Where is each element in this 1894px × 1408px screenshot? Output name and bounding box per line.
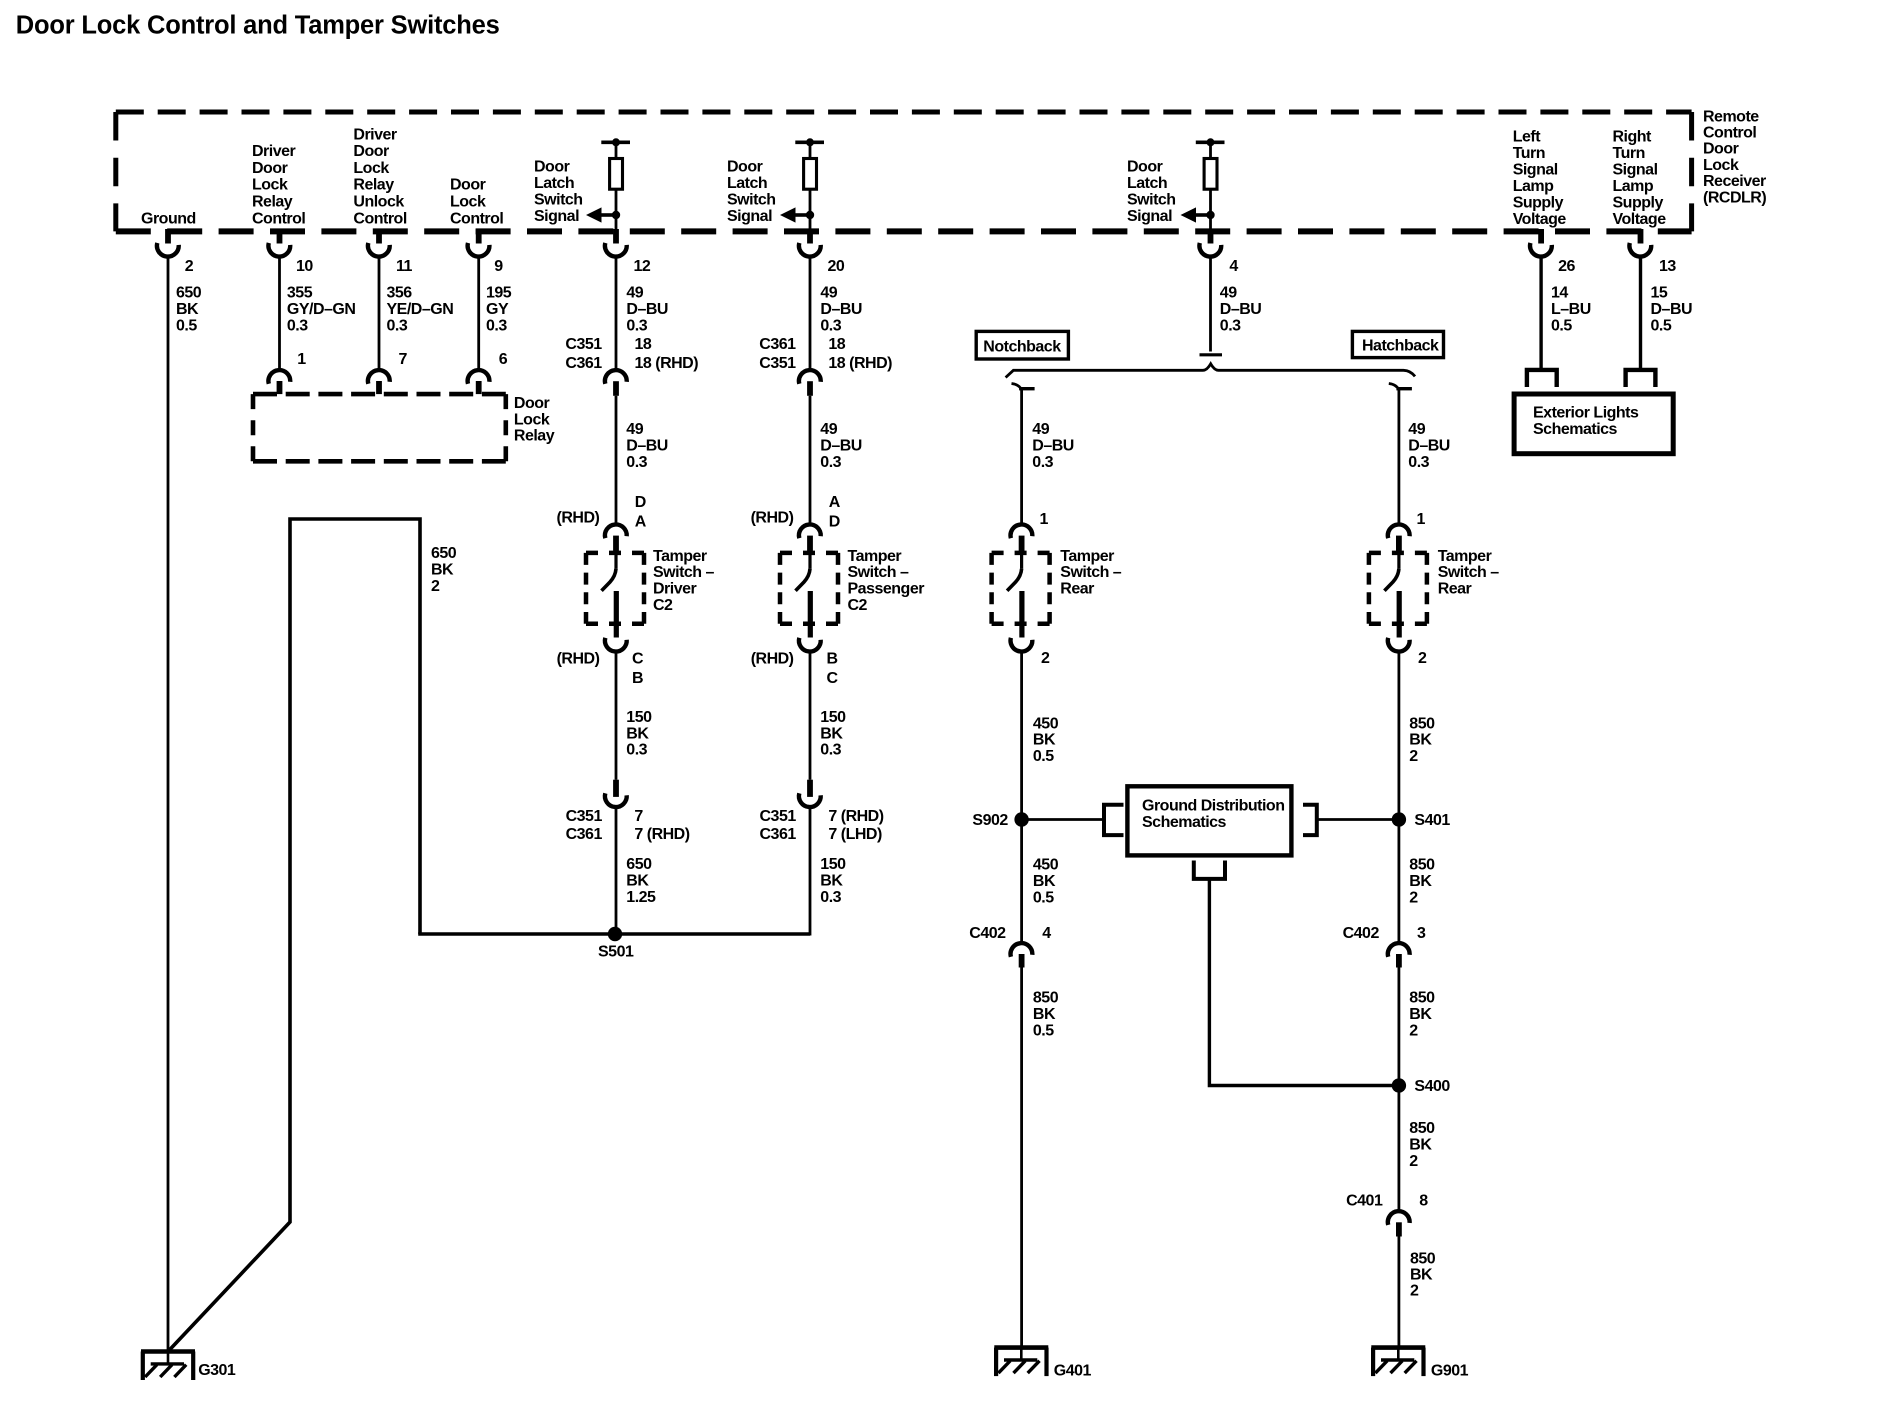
svg-text:Relay: Relay [353,177,394,194]
svg-text:49: 49 [820,421,837,438]
wire label 15 D-BU 0.5 [1651,285,1693,335]
svg-text:S902: S902 [972,812,1008,829]
inline connector C351/C361 (passenger lower) [799,780,821,807]
svg-text:2: 2 [431,578,440,595]
svg-text:BK: BK [1409,1137,1432,1154]
svg-text:0.3: 0.3 [626,742,647,759]
svg-text:7 (LHD): 7 (LHD) [828,826,882,843]
svg-text:Signal: Signal [1613,161,1658,178]
svg-text:8: 8 [1419,1193,1428,1210]
svg-text:1: 1 [1417,511,1426,528]
svg-text:Tamper: Tamper [1438,548,1492,565]
svg-text:Relay: Relay [514,428,555,445]
pin number 13 [1659,258,1676,275]
svg-text:15: 15 [1651,285,1668,302]
svg-text:650: 650 [176,285,202,302]
svg-text:Switch –: Switch – [653,564,715,581]
tamper switch passenger C2 (dashed box + switch) [780,524,838,651]
resistor (door latch switch pull-up, rear) [1196,138,1225,231]
svg-text:(RHD): (RHD) [557,650,600,667]
wire 49 D-BU (notchback branch) [1012,384,1035,524]
resistor (door latch switch pull-up, passenger) [795,138,824,231]
door latch switch signal arrow (driver) [586,207,620,222]
wire label 49 D-BU 0.3 (driver mid) [626,421,668,471]
svg-text:Lamp: Lamp [1613,178,1654,195]
svg-text:49: 49 [820,285,837,302]
inline connector C351/C361 (driver lower) [605,780,627,807]
wire label 49 D-BU 0.3 (passenger) [820,285,862,335]
svg-text:850: 850 [1410,1250,1436,1267]
svg-text:0.5: 0.5 [1551,317,1572,334]
svg-text:0.3: 0.3 [1032,454,1053,471]
svg-text:Unlock: Unlock [353,194,404,211]
svg-text:C: C [632,650,644,667]
svg-text:Driver: Driver [252,143,296,160]
wire label 49 D-BU 0.3 (passenger mid) [820,421,862,471]
svg-text:2: 2 [1041,650,1050,667]
svg-text:0.3: 0.3 [626,317,647,334]
wire S902 to ground distribution bracket [1022,818,1104,821]
pin number 12 [634,258,651,275]
wire 850 BK 2 to G901 [1398,1237,1401,1348]
svg-text:2: 2 [1409,748,1418,765]
ground G401 [994,1348,1091,1380]
svg-text:Lock: Lock [252,177,288,194]
wire label 14 L-BU 0.5 [1551,285,1591,335]
bracket right (to ground distribution) [1303,805,1317,835]
pin number 4 [1229,258,1238,275]
wire label 49 D-BU 0.3 (notchback) [1032,421,1074,471]
pin label: Door Latch Switch Signal (passenger) [727,159,776,226]
pin label: Driver Door Lock Relay Unlock Control [353,126,406,227]
svg-text:650: 650 [626,856,652,873]
svg-text:2: 2 [1409,889,1418,906]
svg-text:Door: Door [252,160,288,177]
wire 850 BK 2 S401 to C402 [1398,820,1401,943]
wire S401 to ground distribution bracket [1317,818,1399,821]
svg-text:0.3: 0.3 [1220,317,1241,334]
wire label 49 D-BU 0.3 (hatchback) [1408,421,1450,471]
Ground Distribution Schematics box [1127,786,1291,855]
tamper switch passenger label [848,548,925,614]
svg-text:Ground Distribution: Ground Distribution [1142,797,1284,814]
svg-text:Switch: Switch [1127,192,1176,209]
svg-text:Rear: Rear [1438,581,1472,598]
svg-text:D–BU: D–BU [1220,301,1262,318]
svg-text:BK: BK [1033,1006,1056,1023]
svg-text:BK: BK [431,562,454,579]
wire 650 BK 2 (S501 to G301 path) [168,519,420,1352]
svg-text:11: 11 [396,258,413,275]
svg-text:Driver: Driver [653,581,697,598]
tamper switch rear label (notchback) [1060,548,1122,598]
svg-text:D–BU: D–BU [1032,437,1074,454]
svg-text:7 (RHD): 7 (RHD) [634,826,689,843]
svg-text:0.3: 0.3 [820,454,841,471]
wire label 850 BK 0.5 [1033,990,1059,1040]
title: Door Lock Control and Tamper Switches [16,12,500,40]
ground G301 [141,1352,236,1381]
wire 355 pin10 to relay pin1 [278,258,281,370]
door latch switch signal arrow (passenger) [780,207,814,222]
svg-text:Schematics: Schematics [1533,421,1618,438]
svg-text:BK: BK [626,873,649,890]
pin label: Ground [141,210,196,227]
svg-text:C402: C402 [969,925,1006,942]
svg-text:49: 49 [626,421,643,438]
svg-text:A: A [635,514,647,531]
svg-text:C351: C351 [759,355,796,372]
pin number 2 [185,258,194,275]
svg-text:B: B [632,670,643,687]
svg-text:Tamper: Tamper [848,548,902,565]
svg-text:Lock: Lock [1703,157,1739,174]
svg-text:4: 4 [1229,258,1238,275]
connector C401 pin 8 [1346,1193,1428,1237]
svg-text:850: 850 [1409,1120,1435,1137]
connector relay pin 6 [468,370,490,394]
svg-text:Signal: Signal [1127,208,1172,225]
svg-text:150: 150 [820,709,846,726]
svg-text:C351: C351 [760,808,797,825]
wire 650 BK 1.25 to S501 [615,808,618,934]
inline connector C351/C361 (driver upper) [605,370,627,396]
connector pin 20 (Door Latch Switch Signal passenger) [799,229,821,257]
svg-text:Supply: Supply [1613,194,1664,211]
RCDLR name label [1703,108,1766,206]
svg-text:0.3: 0.3 [486,317,507,334]
svg-text:GY/D–GN: GY/D–GN [287,301,356,318]
svg-text:2: 2 [1418,650,1427,667]
svg-text:Control: Control [353,210,406,227]
svg-text:Switch: Switch [534,192,583,209]
pin label: Door Lock Control [450,177,503,228]
svg-text:Door Lock Control and Tamper S: Door Lock Control and Tamper Switches [16,12,500,40]
svg-text:G901: G901 [1431,1363,1469,1380]
svg-text:Switch –: Switch – [1060,564,1122,581]
svg-text:0.3: 0.3 [820,742,841,759]
svg-text:7 (RHD): 7 (RHD) [828,808,883,825]
ground G901 [1371,1348,1468,1380]
svg-text:Door: Door [450,177,486,194]
svg-text:Switch –: Switch – [1438,564,1500,581]
wire 15 D-BU pin13 down [1639,258,1642,370]
svg-text:Passenger: Passenger [848,581,925,598]
svg-text:3: 3 [1417,925,1426,942]
svg-text:Door: Door [514,395,550,412]
svg-text:850: 850 [1409,715,1435,732]
svg-text:0.3: 0.3 [626,454,647,471]
wire label 850 BK 2 (above S401) [1409,715,1435,765]
pin letters B C (passenger) [827,650,839,687]
svg-text:26: 26 [1558,258,1575,275]
tamper switch rear notchback (dashed box + switch) [992,524,1050,651]
connector labels C351 C361 18 (driver upper) [565,336,698,372]
connector pin 26 (Left Turn Signal) [1530,229,1552,257]
svg-text:18: 18 [635,336,652,353]
svg-text:L–BU: L–BU [1551,301,1591,318]
svg-text:D: D [635,494,646,511]
connector labels C361 C351 18 (passenger upper) [759,336,892,372]
svg-text:BK: BK [1033,873,1056,890]
wire label 150 BK 0.3 (passenger lower) [820,856,846,906]
wire 49 D-BU to passenger tamper switch [809,396,812,524]
svg-text:450: 450 [1033,715,1059,732]
svg-text:6: 6 [499,351,508,368]
svg-text:0.3: 0.3 [820,889,841,906]
wire from bracket down to S400 [1209,879,1397,1086]
brace (notchback/hatchback option split) [1006,364,1415,378]
wire label 150 BK 0.3 (driver) [626,709,652,758]
wire S501 horizontal bus [418,932,810,936]
connector pin 4 (Door Latch Switch Signal rear) [1199,229,1221,257]
goalpost (left turn to exterior lights) [1527,370,1557,387]
wire label 355 GY/D-GN 0.3 [287,285,356,335]
wire 49 D-BU pin12 down [615,258,618,370]
svg-text:Tamper: Tamper [1060,548,1114,565]
Door Lock Relay dashed box [253,394,506,461]
svg-text:1.25: 1.25 [626,889,656,906]
RCDLR dashed box (Remote Control Door Lock Receiver) [116,112,1692,231]
resistor (door latch switch pull-up, driver) [601,138,630,231]
wire label 850 BK 2 (above S400) [1409,990,1435,1040]
connector labels C351 C361 7 (driver lower) [566,808,690,843]
pin label: Door Latch Switch Signal (rear) [1127,159,1176,226]
svg-text:1: 1 [1040,511,1049,528]
svg-text:C2: C2 [848,597,868,614]
svg-text:D–BU: D–BU [1408,437,1450,454]
svg-text:13: 13 [1659,258,1676,275]
svg-text:C402: C402 [1343,925,1380,942]
svg-text:Lock: Lock [514,411,550,428]
pin label: Door Latch Switch Signal (driver) [534,159,583,226]
tamper switch driver label [653,548,715,614]
svg-text:C361: C361 [760,826,797,843]
wire 650 BK 0.5 pin2 to G301 [167,258,170,1352]
bracket left (to ground distribution) [1104,805,1124,835]
svg-text:0.3: 0.3 [820,317,841,334]
svg-text:G301: G301 [198,1362,236,1379]
svg-text:0.5: 0.5 [1033,889,1054,906]
svg-text:1: 1 [297,351,306,368]
svg-text:C351: C351 [566,808,603,825]
connector C402 pin 4 [969,925,1051,968]
svg-text:2: 2 [1409,1153,1418,1170]
Door Lock Relay label [514,395,555,444]
wire 450 BK 0.5 S902 to C402 [1020,820,1023,943]
pin label: Left Turn Signal Lamp Supply Voltage [1513,128,1567,228]
svg-text:Door: Door [1703,141,1739,158]
wire label 850 BK 2 (bottom) [1410,1250,1436,1299]
pin number 2 (hatchback tamper) [1418,650,1427,667]
svg-text:BK: BK [626,725,649,742]
svg-text:D–BU: D–BU [1651,301,1693,318]
tamper switch rear hatchback (dashed box + switch) [1369,524,1427,651]
tamper switch rear label (hatchback) [1438,548,1500,598]
svg-text:150: 150 [626,709,652,726]
svg-text:G401: G401 [1054,1363,1092,1380]
svg-text:S501: S501 [598,943,634,960]
wire 49 D-BU pin20 down [809,258,812,370]
pin number 26 [1558,258,1575,275]
pin label: Right Turn Signal Lamp Supply Voltage [1613,128,1667,228]
svg-text:Latch: Latch [727,175,767,192]
svg-text:BK: BK [1410,1267,1433,1284]
svg-text:Lock: Lock [353,160,389,177]
svg-text:(RHD): (RHD) [557,510,600,527]
svg-text:D–BU: D–BU [626,437,668,454]
svg-text:(RHD): (RHD) [751,510,794,527]
svg-text:Switch: Switch [727,192,776,209]
svg-text:Exterior Lights: Exterior Lights [1533,405,1639,422]
svg-text:Switch –: Switch – [848,564,910,581]
svg-text:Right: Right [1613,128,1653,145]
svg-text:BK: BK [1409,1006,1432,1023]
svg-text:Control: Control [252,210,305,227]
svg-text:Rear: Rear [1060,581,1094,598]
pin number 20 [828,258,845,275]
svg-text:Voltage: Voltage [1613,211,1667,228]
wire label 450 BK 0.5 (below S902) [1033,856,1059,906]
svg-text:(RCDLR): (RCDLR) [1703,189,1766,206]
svg-text:Receiver: Receiver [1703,173,1766,190]
wire label 49 D-BU 0.3 (rear) [1220,285,1262,335]
connector pin 11 (Driver Door Lock Relay Unlock Control) [368,229,390,257]
svg-text:Voltage: Voltage [1513,211,1567,228]
svg-text:D–BU: D–BU [626,301,668,318]
wire label 49 D-BU 0.3 (driver) [626,285,668,335]
pin letters D A (driver) [635,494,647,531]
svg-text:12: 12 [634,258,651,275]
svg-text:Tamper: Tamper [653,548,707,565]
wire 850 BK 2 to C401 [1398,1086,1401,1211]
svg-text:Control: Control [450,210,503,227]
svg-text:18: 18 [828,336,845,353]
wire label 450 BK 0.5 (above S902) [1033,715,1059,765]
pin letters A D (passenger) [829,494,841,531]
svg-text:C361: C361 [565,355,602,372]
door latch switch signal arrow (rear) [1181,207,1215,222]
wire 150 BK 0.3 to S501 line [809,808,812,936]
svg-text:Ground: Ground [141,210,196,227]
wire label 195 GY 0.3 [486,285,512,335]
svg-text:49: 49 [1408,421,1425,438]
connector labels C351 C361 7 (passenger lower) [760,808,884,843]
svg-text:BK: BK [176,301,199,318]
pin number 9 [494,258,503,275]
svg-text:355: 355 [287,285,313,302]
wire 850 BK 2 to S401 [1398,652,1401,819]
svg-text:S401: S401 [1414,812,1450,829]
svg-text:0.3: 0.3 [1408,454,1429,471]
svg-text:Signal: Signal [727,208,772,225]
relay pin number 7 [399,351,408,368]
svg-text:C351: C351 [565,336,602,353]
svg-text:A: A [829,494,841,511]
Notchback label box [976,331,1068,359]
svg-text:49: 49 [1220,285,1237,302]
wire label 650 BK 2 [431,545,457,595]
relay pin number 1 [297,351,306,368]
connector pin 12 (Door Latch Switch Signal driver) [605,229,627,257]
svg-text:D–BU: D–BU [820,437,862,454]
wire 356 pin11 to relay pin7 [378,258,381,370]
svg-text:Latch: Latch [534,175,574,192]
connector pin 10 (Driver Door Lock Relay Control) [268,229,290,257]
(RHD) note (driver top) [557,510,600,527]
svg-text:850: 850 [1033,990,1059,1007]
svg-text:C401: C401 [1346,1193,1383,1210]
svg-text:20: 20 [828,258,845,275]
svg-text:49: 49 [1032,421,1049,438]
wire 850 BK 0.5 to G401 [1020,968,1023,1348]
pin number 2 (notchback tamper) [1041,650,1050,667]
svg-text:Signal: Signal [534,208,579,225]
svg-text:GY: GY [486,301,509,318]
connector C402 pin 3 [1343,925,1426,968]
svg-text:Turn: Turn [1513,145,1545,162]
svg-text:Turn: Turn [1613,145,1645,162]
svg-text:Door: Door [1127,159,1163,176]
svg-text:B: B [827,650,838,667]
wire label 650 BK 1.25 [626,856,656,906]
svg-text:450: 450 [1033,856,1059,873]
(RHD) note (passenger bottom) [751,650,794,667]
svg-text:850: 850 [1409,856,1435,873]
svg-text:Left: Left [1513,128,1542,145]
pin number 1 (notchback tamper) [1040,511,1049,528]
svg-text:10: 10 [296,258,313,275]
tamper switch driver C2 (dashed box + switch) [586,524,644,651]
connector pin 9 (Door Lock Control) [468,229,490,257]
pin letters C B (driver) [632,650,644,687]
svg-text:Remote: Remote [1703,108,1759,125]
svg-text:Latch: Latch [1127,175,1167,192]
svg-text:BK: BK [1409,732,1432,749]
svg-text:2: 2 [1409,1023,1418,1040]
svg-text:C361: C361 [759,336,796,353]
svg-text:Notchback: Notchback [983,339,1061,356]
svg-text:0.3: 0.3 [387,317,408,334]
wire label 850 BK 2 (below S401) [1409,856,1435,906]
pin number 1 (hatchback tamper) [1417,511,1426,528]
svg-text:BK: BK [820,725,843,742]
wire 850 BK 2 to S400 [1398,968,1401,1086]
connector pin 13 (Right Turn Signal) [1629,229,1651,257]
svg-text:Hatchback: Hatchback [1362,338,1439,355]
wire 49 D-BU to driver tamper switch [615,396,618,524]
svg-text:49: 49 [626,285,643,302]
splice S401 [1392,812,1451,829]
svg-text:Door: Door [534,159,570,176]
wire 450 BK 0.5 to S902 [1020,652,1023,819]
svg-text:BK: BK [1033,732,1056,749]
wire 14 L-BU pin26 down [1539,258,1542,370]
svg-text:650: 650 [431,545,457,562]
connector pin 2 (Ground) [157,229,179,257]
svg-text:7: 7 [399,351,408,368]
svg-text:Driver: Driver [353,126,397,143]
svg-text:Door: Door [353,143,389,160]
svg-text:BK: BK [1409,873,1432,890]
inline connector C361/C351 (passenger upper) [799,370,821,396]
svg-text:Control: Control [1703,125,1756,142]
svg-text:0.3: 0.3 [287,317,308,334]
svg-text:850: 850 [1409,990,1435,1007]
svg-text:S400: S400 [1414,1078,1450,1095]
svg-text:14: 14 [1551,285,1568,302]
svg-text:356: 356 [387,285,413,302]
